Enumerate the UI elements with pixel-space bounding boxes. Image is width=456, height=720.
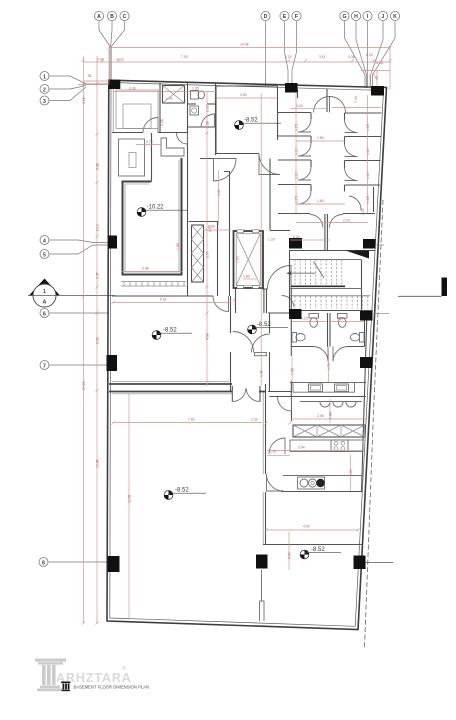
svg-text:BASEMENT FLOOR DIMENSION PLAN: BASEMENT FLOOR DIMENSION PLAN	[74, 685, 150, 690]
svg-text:D: D	[264, 14, 268, 20]
svg-text:11.58: 11.58	[128, 495, 132, 503]
svg-text:3.40: 3.40	[296, 104, 303, 108]
svg-text:1.98: 1.98	[176, 243, 180, 250]
svg-text:1.35: 1.35	[192, 87, 199, 91]
row bubble 2	[40, 85, 49, 94]
row bubble 6	[40, 309, 49, 318]
thin line mid-bottom	[260, 570, 265, 621]
svg-text:1.18: 1.18	[366, 196, 370, 203]
red dims right wing horizontals	[290, 136, 345, 240]
column bath right	[360, 357, 373, 368]
wall x=270 lobby right	[270, 159, 290, 231]
svg-text:B: B	[110, 14, 114, 20]
sink room walls	[270, 381, 367, 397]
column left row4	[108, 236, 117, 249]
red dims toilet area	[160, 97, 210, 127]
right wing room partitions left side	[278, 113, 311, 192]
wall y=490 kitchenette bottom	[281, 491, 363, 493]
svg-text:1.40: 1.40	[217, 189, 221, 196]
toilet stall 1	[309, 314, 319, 328]
svg-text:2.10: 2.10	[96, 224, 100, 231]
svg-text:1.18: 1.18	[366, 124, 370, 131]
svg-text:1.80: 1.80	[317, 136, 324, 140]
grid bubble C	[120, 11, 129, 20]
grid bubble J	[378, 11, 387, 20]
door arcs left rooms	[298, 119, 311, 204]
svg-text:G: G	[342, 14, 346, 20]
svg-text:-8.52: -8.52	[163, 327, 177, 333]
lobby south wall and door	[262, 266, 294, 314]
red dim 5.91	[112, 298, 231, 305]
svg-text:2.02: 2.02	[206, 105, 210, 112]
svg-text:3.28: 3.28	[82, 97, 86, 104]
row bubble 5	[40, 250, 49, 259]
right wing corridor walls	[298, 89, 328, 112]
row bubble 3	[40, 96, 49, 105]
svg-text:1.20: 1.20	[251, 418, 258, 422]
svg-text:-0.03: -0.03	[365, 53, 373, 57]
svg-text:2.08: 2.08	[317, 414, 324, 418]
L bench hall	[161, 138, 184, 156]
svg-text:E: E	[283, 14, 287, 20]
row bubble 7	[40, 361, 49, 370]
column stairs BR	[360, 311, 373, 321]
svg-text:1.80: 1.80	[243, 275, 250, 279]
toilet stall 2	[338, 314, 348, 328]
red dim line 1.30 kitchen door	[267, 450, 290, 456]
svg-text:A: A	[43, 300, 47, 306]
svg-text:3.90: 3.90	[240, 93, 247, 97]
red dimension chain top 1	[108, 43, 392, 50]
red vertical x=207	[206, 92, 210, 386]
leader lines from top bubbles	[99, 21, 395, 88]
door arc toilet	[201, 114, 215, 128]
red dim 7.81	[112, 418, 292, 425]
door arc kitchen from corridor	[269, 438, 285, 454]
level marker -8.52 mid left	[152, 327, 192, 339]
shaft left hatched	[192, 225, 204, 282]
double door big room top	[232, 386, 260, 402]
dome double door corridor top	[314, 97, 346, 113]
toilet partition	[188, 104, 216, 127]
svg-text:1.30: 1.30	[349, 469, 353, 476]
logo column glyph	[35, 659, 66, 692]
svg-text:0.30: 0.30	[293, 235, 300, 239]
red chain left inner	[96, 56, 100, 625]
door arc corridor end	[296, 208, 368, 250]
bidet stall2	[350, 333, 364, 343]
wall room A divider	[159, 83, 161, 133]
svg-text:3.20: 3.20	[361, 208, 365, 215]
svg-text:1: 1	[43, 289, 46, 295]
grid bubble H	[351, 11, 360, 20]
red dims middle room	[233, 298, 295, 386]
svg-text:4.60: 4.60	[288, 552, 292, 559]
svg-text:1.60: 1.60	[317, 199, 324, 203]
svg-text:2.28: 2.28	[206, 121, 210, 128]
bed room A	[116, 90, 158, 129]
red dim 4.00	[265, 525, 360, 532]
kitchen upper walls	[291, 397, 293, 421]
property dashed line right	[365, 200, 384, 648]
svg-text:14.08: 14.08	[240, 43, 249, 47]
wall corridor top y=133	[112, 132, 188, 134]
inner wall face right	[362, 311, 368, 491]
door arc room A	[143, 118, 158, 133]
svg-text:7: 7	[43, 363, 46, 369]
room -10.22 walls	[123, 158, 182, 275]
svg-text:1.20: 1.20	[166, 97, 173, 101]
short tick line right wall y=313	[373, 313, 389, 315]
column left row7	[107, 355, 118, 371]
svg-text:®: ®	[123, 665, 127, 672]
svg-text:0.90: 0.90	[337, 317, 344, 321]
column top E	[285, 83, 298, 93]
svg-text:0.75: 0.75	[146, 140, 153, 144]
section cut mark right	[398, 278, 447, 297]
drawing title	[74, 685, 150, 690]
svg-text:1.10: 1.10	[295, 148, 299, 155]
svg-text:1.20: 1.20	[233, 298, 237, 305]
row bubble 1	[40, 72, 49, 81]
svg-text:8: 8	[42, 560, 45, 566]
svg-text:2.30: 2.30	[129, 87, 136, 91]
svg-text:1.30: 1.30	[270, 450, 277, 454]
column top-left corner	[108, 80, 120, 89]
level marker -10.22	[137, 204, 187, 216]
right wing room partitions right side	[345, 113, 382, 192]
hatched counter	[293, 425, 365, 437]
grid bubble F	[292, 11, 301, 20]
svg-text:C: C	[123, 14, 127, 20]
svg-text:1.10: 1.10	[301, 317, 308, 321]
door arc hall to lobby	[214, 159, 237, 182]
red dims -10.22 room	[122, 225, 275, 280]
svg-text:1.10: 1.10	[366, 172, 370, 179]
wall x=268 corridor right of middle room	[268, 313, 291, 392]
arched double door middle room	[233, 332, 270, 356]
svg-text:1.10: 1.10	[295, 172, 299, 179]
level marker -8.52 big room	[164, 487, 206, 499]
svg-text:J: J	[382, 14, 385, 20]
door arcs right rooms	[345, 120, 362, 211]
svg-text:2.94: 2.94	[298, 446, 305, 450]
wash basins row	[300, 402, 362, 408]
row bubble 8	[39, 558, 48, 567]
svg-text:3: 3	[43, 99, 46, 105]
svg-text:-10.22: -10.22	[147, 204, 165, 210]
door arc kitchenette	[267, 474, 284, 491]
svg-text:1.79: 1.79	[327, 363, 331, 370]
grid bubble A	[94, 11, 103, 20]
door arc hall-left	[177, 133, 188, 144]
hall stub wall	[200, 159, 230, 172]
level marker -8.52 bottom	[300, 547, 341, 559]
svg-text:6: 6	[43, 311, 46, 317]
line from right column out	[365, 562, 393, 564]
level marker -8.52 mid right	[248, 322, 288, 334]
kitchen counter with stove	[290, 440, 363, 452]
wall y=287 corridor bottom	[112, 295, 213, 297]
svg-text:4: 4	[43, 238, 46, 244]
ramp triangle	[346, 251, 370, 259]
red vertical x=218	[217, 170, 221, 225]
red corner verticals	[78, 49, 162, 145]
column stairs BL	[289, 309, 302, 319]
corridor bottom wall y=213	[278, 187, 375, 214]
grid bubble B	[107, 11, 116, 20]
svg-text:-8.52: -8.52	[257, 322, 271, 328]
svg-text:-8.52: -8.52	[175, 487, 189, 493]
door arc center room	[259, 154, 280, 175]
column bottom mid	[256, 555, 268, 569]
kitchenette counter	[283, 476, 362, 490]
svg-text:1: 1	[43, 74, 46, 80]
sink fixture	[190, 106, 199, 115]
window ticks below room	[121, 282, 186, 287]
red vertical big room	[128, 393, 132, 620]
red chain left outer	[82, 56, 86, 625]
column stairs TR	[363, 239, 376, 249]
svg-text:5.91: 5.91	[160, 298, 167, 302]
svg-text:F: F	[295, 14, 298, 20]
svg-text:1.98: 1.98	[291, 368, 295, 375]
wall x=151 up from room	[151, 133, 153, 181]
sink counter	[290, 383, 366, 393]
svg-text:3.11: 3.11	[319, 55, 325, 59]
svg-text:27.23: 27.23	[82, 381, 86, 390]
red top right details	[361, 47, 390, 90]
svg-text:7.81: 7.81	[188, 418, 195, 422]
grid bubble D	[261, 11, 270, 20]
svg-text:2: 2	[43, 87, 46, 93]
svg-text:-0.13: -0.13	[375, 61, 383, 65]
svg-text:1.15: 1.15	[295, 124, 299, 131]
red dims right wing vertical chains	[295, 93, 371, 213]
svg-text:0.02: 0.02	[97, 58, 104, 62]
door arc kitchen upper	[278, 397, 292, 411]
column top JK	[371, 86, 384, 96]
svg-text:1.22: 1.22	[285, 55, 292, 59]
middle room walls	[109, 296, 232, 392]
door arc at corridor end	[213, 296, 229, 312]
svg-text:-8.52: -8.52	[311, 547, 325, 553]
red dims bathrooms	[292, 317, 364, 383]
svg-text:7.04: 7.04	[354, 96, 358, 103]
svg-text:2.28: 2.28	[160, 119, 164, 126]
wall y=391.5 segment right of door	[259, 391, 266, 393]
grid bubble K	[390, 11, 399, 20]
column left row8	[108, 556, 120, 572]
svg-text:1.42: 1.42	[260, 370, 264, 377]
svg-text:3.38: 3.38	[96, 163, 100, 170]
wall x=215 corridor right	[215, 83, 217, 155]
grid bubble G	[340, 11, 349, 20]
svg-text:1.20: 1.20	[268, 238, 275, 242]
column bottom right	[354, 556, 366, 570]
center room -8.52 walls	[216, 86, 278, 154]
wall x=265 kitchen corridor left	[263, 384, 265, 545]
short tick line right of stairs column	[376, 244, 385, 246]
svg-text:3.47: 3.47	[96, 272, 100, 279]
wall x=229.5 lobby left	[229, 172, 231, 297]
red dims upper rooms	[113, 87, 381, 359]
svg-text:A: A	[97, 14, 101, 20]
big room top wall	[109, 392, 232, 394]
svg-text:-8.52: -8.52	[244, 117, 258, 123]
closet box hall	[119, 139, 145, 176]
red dims kitchen	[267, 399, 366, 491]
elevator shaft	[234, 230, 264, 289]
shaft top with X	[163, 86, 185, 104]
bathroom stalls	[291, 313, 364, 362]
svg-text:35: 35	[88, 74, 92, 78]
wall y=544	[263, 544, 362, 546]
svg-text:4.98: 4.98	[206, 333, 210, 340]
svg-text:H: H	[354, 14, 358, 20]
red dimension chain top 2	[82, 53, 392, 65]
svg-text:0.88: 0.88	[329, 412, 333, 419]
svg-text:2.50: 2.50	[206, 251, 210, 258]
red vertical 4.60	[288, 532, 292, 570]
service corridor walls	[189, 222, 219, 297]
svg-text:4.00: 4.00	[303, 525, 310, 529]
column stairs TL	[289, 238, 302, 249]
svg-text:3.62: 3.62	[96, 337, 100, 344]
wall x=235 below elevator	[236, 288, 267, 313]
svg-text:K: K	[393, 14, 397, 20]
section marker 1/A left	[28, 279, 115, 308]
row bubble 4	[40, 236, 49, 245]
level marker -8.52 top center	[235, 117, 281, 129]
building outer wall	[107, 80, 387, 629]
logo mini column icon	[61, 682, 71, 692]
svg-text:3.98: 3.98	[142, 267, 149, 271]
svg-text:1.15: 1.15	[295, 196, 299, 203]
wall toilet room	[187, 83, 189, 296]
grid bubble I	[363, 11, 372, 20]
svg-text:7.03: 7.03	[181, 55, 188, 59]
svg-text:1.10: 1.10	[366, 148, 370, 155]
svg-text:2.50: 2.50	[208, 225, 212, 232]
landing wall y=250	[289, 250, 375, 252]
svg-text:2.20: 2.20	[343, 219, 350, 223]
logo wordmark	[56, 665, 132, 685]
wall y=310 stairs bottom	[289, 310, 373, 312]
room A left wall face	[112, 84, 114, 132]
leader lines from left bubbles	[48, 76, 109, 562]
svg-text:0.36: 0.36	[348, 55, 355, 59]
stairs block	[286, 251, 370, 311]
svg-text:10.86: 10.86	[96, 459, 100, 468]
grid bubble E	[280, 11, 289, 20]
svg-text:5: 5	[43, 252, 46, 258]
bidet stall1	[292, 333, 305, 343]
toilet fixture	[191, 91, 205, 100]
svg-text:1.60: 1.60	[236, 256, 240, 263]
